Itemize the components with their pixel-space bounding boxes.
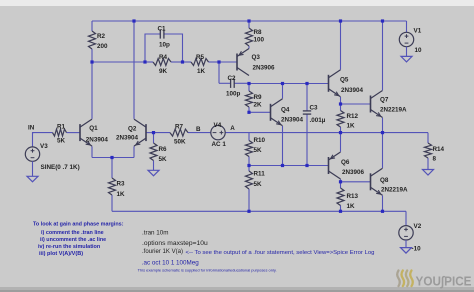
svg-text:iv) re-run the simulation: iv) re-run the simulation: [38, 244, 101, 250]
junction (249,165.5): [247, 164, 250, 167]
wire Q1 emitter: [91, 146, 93, 157]
svg-text:C2: C2: [228, 75, 237, 82]
wire Q7 base: [341, 103, 371, 105]
svg-text:8: 8: [433, 155, 437, 162]
junction (340.5,181.8): [339, 180, 342, 183]
wire R5 to Q3 base: [219, 61, 237, 63]
wire Q4 collector: [282, 84, 284, 99]
wire first stage rail left: [92, 61, 145, 63]
ground: [148, 170, 159, 176]
svg-text:50K: 50K: [174, 139, 186, 146]
svg-text:2N2219A: 2N2219A: [381, 187, 408, 194]
transistor Q8: [371, 168, 409, 195]
svg-text:.options maxstep=10u: .options maxstep=10u: [142, 240, 208, 247]
wire V3 to node IN: [33, 133, 35, 147]
voltage source V2: [399, 223, 422, 252]
resistor R13: [337, 182, 359, 212]
svg-text:Q8: Q8: [380, 177, 389, 184]
wire second stage rail to Q5 base: [249, 83, 329, 85]
transistor Q3: [237, 49, 275, 76]
svg-text:C3: C3: [310, 105, 319, 112]
svg-text:R13: R13: [347, 193, 359, 200]
wire V1 top lead: [406, 21, 408, 32]
ground: [27, 176, 38, 182]
svg-text:To look at gain and phase marg: To look at gain and phase margins:: [33, 222, 124, 228]
svg-text:R3: R3: [117, 181, 126, 188]
window bottom bevel: [0, 287, 474, 292]
junction (282.5,165.5): [281, 164, 284, 167]
wire C1 loop right: [166, 34, 183, 62]
svg-text:i) comment the .tran line: i) comment the .tran line: [41, 230, 104, 236]
wire Q1 collector: [91, 62, 93, 119]
svg-text:1K: 1K: [347, 203, 356, 210]
wire Q4 base: [249, 111, 271, 113]
svg-text:<-- To see the output of a .fo: <-- To see the output of a .four stateme…: [186, 250, 375, 256]
capacitor C2: [219, 75, 249, 98]
junction (182.5,62): [181, 60, 184, 63]
resistor R14: [425, 133, 445, 170]
wire V- bottom rail: [112, 210, 406, 212]
wire V+ top rail: [92, 20, 407, 22]
svg-text:ii) uncomment the .ac line: ii) uncomment the .ac line: [40, 237, 107, 243]
wire V2 top lead: [405, 211, 407, 225]
transistor Q1: [80, 119, 108, 146]
svg-text:2N3904: 2N3904: [341, 87, 364, 94]
svg-text:-10: -10: [412, 245, 422, 252]
svg-text:R11: R11: [254, 171, 266, 178]
wire Q5 collector to V+: [340, 21, 342, 70]
svg-text:200: 200: [97, 43, 108, 50]
svg-text:.ac oct 10 1 100Meg: .ac oct 10 1 100Meg: [142, 259, 199, 266]
svg-text:C1: C1: [158, 26, 167, 33]
resistor R7: [154, 124, 211, 146]
transistor Q6: [329, 152, 365, 179]
resistor R4: [145, 54, 183, 75]
svg-text:Q2: Q2: [128, 126, 137, 133]
wire V2 bottom lead: [405, 240, 407, 248]
junction (340.5,211.3): [339, 210, 342, 213]
junction (249,21): [247, 19, 250, 22]
svg-text:.001µ: .001µ: [310, 117, 326, 124]
svg-text:R14: R14: [433, 146, 445, 153]
junction (340.5,21): [339, 19, 342, 22]
wire Q8 base: [341, 181, 371, 183]
svg-text:1K: 1K: [117, 191, 126, 198]
YouSpice watermark logo icon: [397, 271, 413, 287]
junction (134,21): [132, 19, 135, 22]
resistor R6: [150, 133, 167, 171]
junction (219,62): [217, 60, 220, 63]
svg-text:AC 1: AC 1: [212, 141, 227, 148]
wire node A output rail: [225, 132, 428, 134]
svg-text:Q1: Q1: [89, 125, 98, 132]
svg-text:Q3: Q3: [252, 54, 261, 61]
junction (382.5,21): [381, 19, 384, 22]
resistor R12: [337, 104, 359, 133]
transistor Q2: [116, 119, 146, 146]
wire Q2 collector to V+: [133, 21, 135, 119]
svg-text:R10: R10: [254, 137, 266, 144]
svg-text:R9: R9: [254, 94, 263, 101]
svg-text:IN: IN: [28, 124, 35, 131]
svg-text:5K: 5K: [159, 156, 168, 163]
voltage source V4: [211, 122, 227, 148]
svg-text:2N2219A: 2N2219A: [380, 107, 407, 114]
svg-text:5K: 5K: [57, 138, 66, 145]
resistor R9: [246, 84, 263, 113]
svg-text:9K: 9K: [159, 68, 168, 75]
comment gain/phase instructions: [33, 222, 124, 257]
junction (249,112.3): [247, 111, 250, 114]
svg-text:R6: R6: [159, 146, 168, 153]
junction (249,211.3): [247, 210, 250, 213]
wire Q8 emitter: [382, 196, 384, 212]
ground: [401, 248, 412, 254]
svg-text:YOU∫PICE: YOU∫PICE: [416, 273, 472, 288]
junction (145,62): [143, 60, 146, 63]
junction (382.5,132.6): [381, 131, 384, 134]
voltage source V1: [399, 27, 422, 54]
svg-text:R2: R2: [97, 33, 106, 40]
wire C1 loop left: [145, 34, 159, 62]
svg-text:B: B: [196, 126, 201, 133]
svg-text:Q5: Q5: [340, 77, 349, 84]
transistor Q4: [271, 99, 304, 126]
wire Q4 emitter: [282, 126, 284, 166]
transistor Q5: [329, 70, 364, 97]
capacitor C1: [158, 26, 171, 49]
wire V1 bottom lead: [406, 47, 408, 57]
svg-text:5K: 5K: [254, 181, 263, 188]
wire Q6 emitter to output: [340, 133, 342, 152]
window top bevel: [0, 0, 474, 6]
svg-text:10: 10: [415, 47, 423, 54]
junction (307,165.5): [305, 164, 308, 167]
wire Q7 collector to V+: [382, 21, 384, 90]
junction (282.5,83.5): [281, 82, 284, 85]
wire lower drive rail to Q6 base: [249, 165, 329, 167]
wire Q6 collector: [340, 179, 342, 182]
svg-text:V1: V1: [414, 27, 422, 34]
junction (112,157.5): [110, 156, 113, 159]
svg-text:V2: V2: [414, 223, 422, 230]
resistor R10: [246, 133, 266, 166]
junction (249,83.5): [247, 82, 250, 85]
wire Q7 emitter to output: [382, 118, 384, 133]
svg-text:R1: R1: [57, 124, 66, 131]
svg-text:2N3904: 2N3904: [86, 136, 109, 143]
svg-text:1K: 1K: [197, 68, 206, 75]
wire Q2 base: [146, 132, 154, 134]
wire emitter rail Q1-Q2: [92, 157, 134, 159]
junction (307,83.5): [305, 82, 308, 85]
resistor R1: [33, 124, 81, 145]
svg-text:This example schematic is supp: This example schematic is supplied for i…: [138, 268, 277, 273]
junction (92,62): [90, 60, 93, 63]
svg-text:1K: 1K: [347, 123, 356, 130]
svg-text:.fourier 1K V(a): .fourier 1K V(a): [142, 248, 183, 255]
resistor R8: [246, 21, 265, 49]
svg-text:100: 100: [254, 37, 265, 44]
resistor R11: [246, 166, 266, 212]
svg-text:2N3904: 2N3904: [116, 135, 139, 142]
junction (340.5,132.6): [339, 131, 342, 134]
svg-text:R4: R4: [159, 54, 168, 61]
capacitor C3: [303, 84, 326, 166]
resistor R3: [109, 158, 126, 212]
svg-text:Q7: Q7: [380, 97, 389, 104]
svg-text:V4: V4: [214, 122, 222, 129]
svg-text:iii) plot V(A)/V(B): iii) plot V(A)/V(B): [39, 251, 83, 257]
wire C2 drop from Q3 base node: [218, 62, 220, 83]
svg-text:2K: 2K: [254, 102, 263, 109]
svg-text:10p: 10p: [159, 41, 170, 48]
wire Q8 collector to output: [382, 133, 384, 169]
ground: [401, 56, 412, 62]
svg-text:Q6: Q6: [341, 159, 350, 166]
svg-text:Q4: Q4: [281, 106, 290, 113]
svg-text:A: A: [230, 125, 235, 132]
svg-text:R7: R7: [175, 124, 184, 131]
voltage source V3: [25, 143, 79, 171]
junction (382.5,211.3): [381, 210, 384, 213]
resistor R2: [89, 21, 109, 62]
svg-text:SINE(0 .7 1K): SINE(0 .7 1K): [41, 164, 80, 171]
resistor R5: [183, 54, 220, 75]
svg-text:2N3906: 2N3906: [342, 169, 365, 176]
wire V3 bottom lead: [32, 161, 34, 176]
svg-text:R8: R8: [254, 29, 263, 36]
wire Q2 emitter: [133, 146, 135, 157]
wire Q5 emitter: [340, 97, 342, 104]
svg-text:V3: V3: [40, 143, 48, 150]
junction (340.5,104): [339, 102, 342, 105]
svg-text:100p: 100p: [226, 91, 241, 98]
transistor Q7: [371, 91, 408, 118]
svg-text:2N3904: 2N3904: [281, 117, 304, 124]
svg-text:2N3906: 2N3906: [253, 64, 276, 71]
svg-text:R5: R5: [196, 54, 205, 61]
svg-text:.tran 10m: .tran 10m: [142, 230, 169, 237]
svg-text:R12: R12: [347, 113, 359, 120]
junction (153.5,132.6): [152, 131, 155, 134]
svg-text:5K: 5K: [254, 147, 263, 154]
ground: [423, 170, 434, 176]
